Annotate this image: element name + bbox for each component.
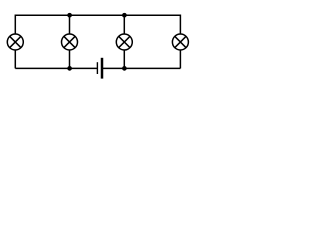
wire top bus xyxy=(15,15,180,34)
lamp L4 xyxy=(172,34,188,50)
wire riser lamp L3 top xyxy=(123,15,125,34)
wire bottom bus left xyxy=(15,67,97,69)
lamp L1 xyxy=(7,34,23,50)
junction node bottom lamp L2 xyxy=(67,66,72,71)
battery cell B1 xyxy=(97,58,102,79)
junction node bottom lamp L3 xyxy=(122,66,127,71)
wire bottom bus right xyxy=(102,67,180,69)
wire riser lamp L2 top xyxy=(69,15,71,34)
wire riser lamp L1 bottom xyxy=(14,50,16,69)
wire riser lamp L4 bottom xyxy=(179,50,181,69)
junction node top lamp L2 xyxy=(67,13,72,18)
lamp L3 xyxy=(116,34,132,50)
wire riser lamp L3 bottom xyxy=(123,50,125,69)
wire riser lamp L2 bottom xyxy=(69,50,71,69)
lamp L2 xyxy=(62,34,78,50)
junction node top lamp L3 xyxy=(122,13,127,18)
